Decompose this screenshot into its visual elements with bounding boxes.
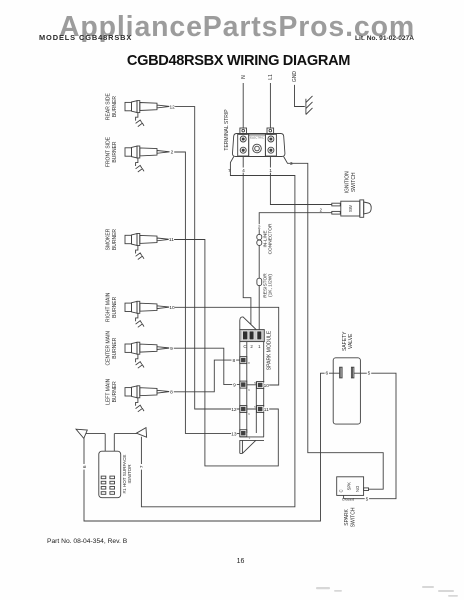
connector triangle left bbox=[76, 429, 87, 438]
spark switch bottom label 5 bbox=[365, 496, 369, 502]
svg-text:Lit. No. 91-02-027A: Lit. No. 91-02-027A bbox=[355, 35, 414, 42]
svg-text:SPK: SPK bbox=[347, 482, 352, 491]
svg-text:6: 6 bbox=[325, 371, 328, 377]
svg-text:10: 10 bbox=[264, 383, 270, 389]
svg-text:VALVE: VALVE bbox=[348, 333, 354, 349]
svg-text:8: 8 bbox=[248, 361, 250, 365]
wire 1: terminal strip to ignition switch top bbox=[270, 157, 331, 205]
svg-text:(1K, 1/2W): (1K, 1/2W) bbox=[267, 274, 273, 297]
hsi wire labels 6 7 rotated bbox=[82, 464, 88, 470]
wire 2: ignition switch bottom to in-line connector chain bbox=[259, 213, 332, 330]
svg-text:BURNER: BURNER bbox=[112, 381, 118, 403]
svg-text:LEFT MAIN: LEFT MAIN bbox=[105, 378, 111, 404]
wire 12: rear side burner to spark module terminal 12 bbox=[170, 107, 240, 409]
svg-text:CONNECTOR: CONNECTOR bbox=[267, 223, 273, 254]
label hot surface ignitor bbox=[122, 455, 132, 494]
label smoker burner bbox=[105, 228, 118, 250]
spark switch S1 bbox=[337, 477, 369, 496]
label spark switch bbox=[344, 507, 357, 527]
svg-text:BURNER: BURNER bbox=[112, 337, 118, 359]
svg-text:1: 1 bbox=[269, 168, 272, 174]
svg-text:9: 9 bbox=[233, 383, 236, 389]
svg-text:9: 9 bbox=[248, 388, 250, 392]
burner igniter B2 front side bbox=[125, 146, 170, 172]
scan smudge marks bbox=[316, 586, 458, 597]
svg-text:N: N bbox=[241, 75, 247, 79]
label right main burner bbox=[105, 292, 118, 322]
wire GND lead bbox=[295, 85, 305, 107]
resistor R1 1K 1/2W bbox=[257, 278, 262, 285]
wire N: line N to terminal strip bbox=[242, 83, 244, 128]
wire 6: safety valve left terminal to hot surface ignitor left lead bbox=[84, 373, 340, 521]
connector triangle right bbox=[136, 428, 146, 438]
hot surface ignitor leads bbox=[86, 434, 137, 452]
svg-text:4: 4 bbox=[242, 168, 245, 174]
wire number labels bbox=[82, 104, 372, 503]
svg-text:Part No. 08-04-354, Rev. B: Part No. 08-04-354, Rev. B bbox=[47, 538, 128, 545]
svg-text:C: C bbox=[339, 489, 344, 492]
burner igniter B5 center main bbox=[125, 342, 170, 368]
svg-text:CGBD48RSBX WIRING DIAGRAM: CGBD48RSBX WIRING DIAGRAM bbox=[127, 53, 350, 69]
svg-text:BURNER: BURNER bbox=[112, 141, 118, 163]
svg-text:10: 10 bbox=[169, 305, 175, 311]
svg-text:ELECTRIC: ELECTRIC bbox=[250, 136, 264, 140]
connector label 2 bbox=[257, 224, 261, 230]
module side labels bbox=[232, 358, 237, 364]
label rear side burner bbox=[105, 92, 118, 120]
spark module U1 bbox=[240, 317, 265, 453]
svg-text:11: 11 bbox=[264, 407, 269, 413]
safety valve V1 bbox=[333, 358, 360, 424]
valve labels 6 5 bbox=[325, 370, 329, 376]
svg-text:RIGHT MAIN: RIGHT MAIN bbox=[105, 292, 111, 322]
wire 2/13: front side burner to spark module terminal 13 bbox=[170, 152, 240, 433]
svg-text:8: 8 bbox=[232, 358, 235, 364]
svg-text:CENTER MAIN: CENTER MAIN bbox=[105, 331, 111, 366]
svg-text:5: 5 bbox=[366, 497, 369, 503]
svg-text:IGNITION: IGNITION bbox=[344, 171, 350, 194]
spark switch pin labels C SPK NO bbox=[339, 482, 360, 493]
svg-text:2: 2 bbox=[258, 225, 261, 231]
svg-text:2: 2 bbox=[171, 150, 174, 156]
svg-text:9: 9 bbox=[170, 346, 173, 352]
burner igniter B6 left main bbox=[125, 386, 170, 412]
svg-text:BURNER: BURNER bbox=[112, 96, 118, 118]
svg-text:16: 16 bbox=[237, 558, 245, 565]
svg-text:REAR SIDE: REAR SIDE bbox=[105, 92, 111, 120]
svg-text:8: 8 bbox=[170, 390, 173, 396]
wire 7: terminal strip to hot surface ignitor right lead bbox=[141, 157, 295, 507]
svg-text:2: 2 bbox=[320, 207, 323, 212]
burner igniter B4 right main bbox=[125, 301, 170, 327]
in-line connector J1 bbox=[257, 234, 262, 245]
wire L1: line L1 to terminal strip bbox=[269, 83, 271, 128]
svg-text:SPARK: SPARK bbox=[344, 508, 350, 525]
label front side burner bbox=[105, 136, 118, 167]
svg-text:NO: NO bbox=[355, 485, 360, 492]
svg-text:FRONT SIDE: FRONT SIDE bbox=[105, 136, 111, 167]
svg-text:11: 11 bbox=[169, 237, 174, 243]
hot surface ignitor HSI1 bbox=[99, 451, 121, 498]
label center main burner bbox=[105, 331, 118, 366]
svg-text:MODELS CGB48RSBX: MODELS CGB48RSBX bbox=[39, 33, 132, 42]
svg-text:TERMINAL STRIP: TERMINAL STRIP bbox=[224, 109, 230, 151]
svg-text:Closed: Closed bbox=[342, 497, 354, 502]
svg-text:3: 3 bbox=[290, 161, 293, 167]
svg-text:1: 1 bbox=[258, 344, 261, 349]
label in-line connector bbox=[262, 223, 273, 254]
svg-text:C: C bbox=[243, 344, 246, 349]
ignition switch SW1 bbox=[332, 200, 371, 217]
label left main burner bbox=[105, 378, 118, 404]
svg-text:SPARK MODULE: SPARK MODULE bbox=[266, 330, 272, 370]
terminal strip TS1 bbox=[232, 128, 284, 157]
svg-text:SMOKER: SMOKER bbox=[105, 228, 111, 250]
svg-text:L1: L1 bbox=[268, 74, 274, 80]
burner igniter B1 rear side bbox=[125, 101, 170, 127]
svg-text:IGNITOR: IGNITOR bbox=[127, 464, 132, 484]
wire 10: right main burner to spark module terminal 10 bbox=[170, 307, 279, 385]
svg-text:9: 9 bbox=[248, 412, 250, 416]
label resistor bbox=[262, 273, 273, 298]
svg-text:12: 12 bbox=[170, 104, 176, 110]
svg-text:7: 7 bbox=[228, 168, 231, 174]
wire 8: left main burner to spark module terminal 8 bbox=[170, 360, 240, 392]
svg-text:12: 12 bbox=[231, 407, 237, 413]
wire 11: smoker burner to spark module terminal 11 bbox=[170, 240, 278, 466]
wire 9: center main burner to spark module terminal 9 bbox=[170, 348, 240, 384]
svg-text:BURNER: BURNER bbox=[112, 296, 118, 318]
wire 5: safety valve right terminal to spark switch C bbox=[344, 373, 396, 499]
svg-text:SW: SW bbox=[348, 204, 353, 212]
wire 3: terminal strip to spark switch NO bbox=[284, 157, 384, 490]
label ignition switch bbox=[344, 171, 357, 194]
label safety valve bbox=[342, 331, 354, 351]
svg-text:5: 5 bbox=[368, 371, 371, 377]
svg-text:SWITCH: SWITCH bbox=[351, 507, 357, 527]
wire 4: terminal strip to spark module center slot bbox=[243, 157, 251, 325]
spark module pin marks bbox=[248, 361, 256, 440]
svg-text:13: 13 bbox=[231, 431, 237, 437]
svg-text:2: 2 bbox=[250, 344, 253, 349]
spark module slot letters bbox=[243, 344, 261, 349]
svg-text:6: 6 bbox=[82, 465, 88, 468]
svg-text:BURNER: BURNER bbox=[112, 229, 118, 251]
burner igniter B3 smoker bbox=[125, 234, 170, 260]
svg-text:SWITCH: SWITCH bbox=[351, 172, 357, 192]
svg-text:7: 7 bbox=[139, 465, 145, 468]
svg-text:GND: GND bbox=[292, 71, 298, 83]
chassis ground symbol bbox=[306, 96, 313, 115]
